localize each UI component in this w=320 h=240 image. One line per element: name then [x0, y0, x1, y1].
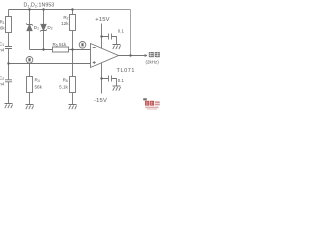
node circle marker a on - line — [79, 42, 86, 49]
node dot D2/limiter line — [42, 48, 44, 50]
svg-text:TL071: TL071 — [117, 68, 136, 74]
node dot +15 bypass — [100, 35, 102, 37]
node circle marker b on + line — [26, 57, 33, 64]
op-amp minus sign — [93, 47, 96, 49]
svg-text:R4: R4 — [35, 77, 40, 83]
svg-text:R1: R1 — [0, 20, 5, 26]
resistor R4 56k — [27, 77, 33, 93]
output wire — [119, 55, 148, 57]
wire R6 branch from inverting node crossing + line — [72, 50, 74, 77]
wire feedback right vertical drop to output — [130, 10, 132, 56]
svg-text:D1,D2:1N953: D1,D2:1N953 — [24, 3, 55, 9]
wire top feedback rail — [9, 9, 73, 11]
junction dots — [7, 8, 131, 79]
resistor R5 51k horizontal — [53, 47, 69, 52]
node dot -15 bypass — [100, 77, 102, 79]
wire R2 branch from rail — [72, 10, 74, 15]
svg-text:56k: 56k — [0, 26, 5, 31]
svg-text:R2: R2 — [63, 15, 68, 21]
wire R5 to inverting input — [69, 49, 91, 51]
svg-text:+15V: +15V — [95, 17, 110, 23]
wire R4 to ground — [29, 93, 31, 105]
node dot D2/rail — [42, 8, 44, 10]
svg-text:56k: 56k — [35, 84, 43, 89]
wire R1 to C1 — [8, 33, 10, 47]
capacitor C4 bypass minus rail — [102, 76, 117, 87]
resistor R1 (label clipped at edge) — [6, 17, 12, 33]
svg-text:-15V: -15V — [94, 98, 107, 104]
wire zener D1 branch from rail — [29, 10, 31, 25]
wire R2 to inverting node — [72, 31, 74, 50]
svg-text:1n4: 1n4 — [0, 82, 5, 87]
ground below C2 — [5, 104, 13, 109]
svg-text:1n4: 1n4 — [0, 48, 5, 53]
resistor R6 5.1k — [70, 77, 76, 93]
node dot noninverting corner — [7, 62, 9, 64]
svg-text:0.1: 0.1 — [118, 29, 125, 34]
wire R6 to ground — [72, 93, 74, 105]
wire C2 branch — [8, 64, 10, 80]
wire top feedback rail right faint — [73, 9, 131, 11]
wire D1 down to limiter line — [29, 31, 31, 50]
svg-text:D2: D2 — [47, 25, 52, 31]
svg-text:R5 51k: R5 51k — [53, 42, 68, 48]
capacitor C1 — [5, 47, 12, 49]
wire R4 branch below circle node — [29, 64, 31, 77]
svg-text:D1: D1 — [34, 25, 39, 31]
svg-text:12k: 12k — [61, 21, 69, 26]
ground bypass minus — [113, 86, 121, 91]
capacitor C2 — [5, 80, 12, 82]
resistor R2 12k — [70, 15, 76, 31]
ground bypass plus — [113, 45, 121, 50]
node dot R2/rail — [71, 8, 73, 10]
svg-text:5.1k: 5.1k — [59, 84, 68, 89]
wire zener D2 branch from rail — [43, 10, 45, 25]
capacitor C3 bypass plus rail — [102, 34, 117, 45]
op-amp plus sign — [93, 61, 96, 64]
svg-text:R6: R6 — [63, 77, 68, 83]
node dot inverting node — [71, 48, 73, 50]
wire left branch from rail down to R1 — [8, 10, 10, 17]
label output chinese blobs — [149, 52, 160, 57]
op-amp U1 triangle — [91, 44, 119, 68]
-15V supply stub — [101, 63, 103, 94]
wire noninverting input line — [9, 63, 91, 65]
zener diode D2 — [40, 24, 47, 31]
ground below R4 — [26, 105, 34, 110]
svg-text:(2kHz): (2kHz) — [146, 60, 160, 65]
svg-text:C2: C2 — [0, 76, 4, 82]
wire C2 to ground — [8, 82, 10, 104]
output arrow head — [145, 55, 147, 57]
svg-text:C1: C1 — [0, 42, 4, 48]
+15V supply stub — [101, 24, 103, 49]
zener diode D1 — [26, 23, 33, 30]
node dot D1/rail — [28, 8, 30, 10]
wire C1 down to noninverting node — [8, 49, 10, 64]
wire D2 down to limiter line — [43, 31, 45, 50]
ground below R6 — [69, 105, 77, 110]
red watermark bottom right — [143, 98, 160, 109]
wire limiter line to R5 — [30, 49, 53, 51]
node dot output feedback tap — [129, 54, 131, 56]
svg-text:0.1: 0.1 — [118, 78, 125, 83]
